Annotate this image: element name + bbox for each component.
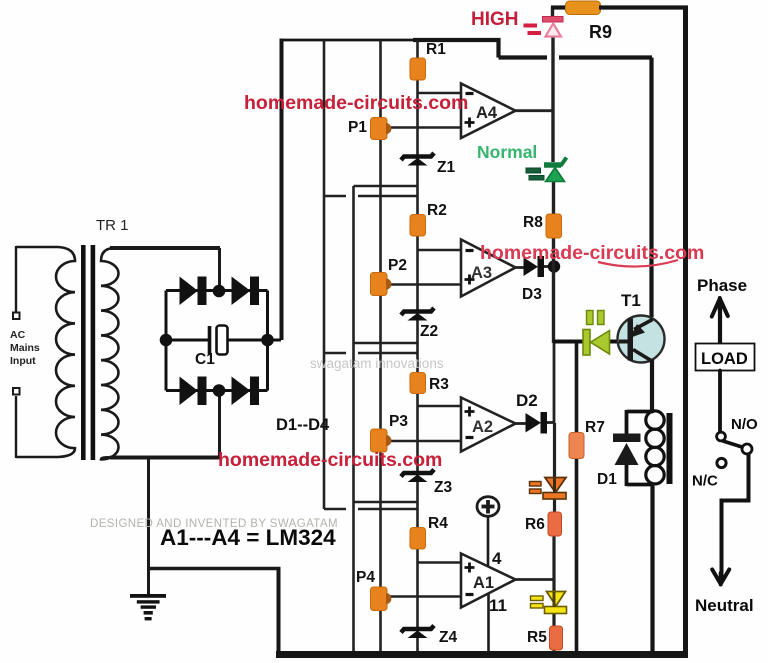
node C1 left <box>160 334 173 347</box>
svg-text:A4: A4 <box>476 104 498 122</box>
main supply bus <box>280 38 653 340</box>
wire top to R9 <box>551 5 566 9</box>
wire normal LED to R8 <box>552 181 555 215</box>
emitter stroke with arrow (PNP) <box>634 320 653 330</box>
LED HIGH (red) <box>524 17 564 37</box>
wire HIGH LED to A4 output <box>551 37 554 163</box>
svg-text:D3: D3 <box>522 286 542 303</box>
preset P3 <box>371 429 392 452</box>
diode bottom-left <box>180 378 197 405</box>
diode bottom-right <box>232 378 250 405</box>
svg-text:P2: P2 <box>388 257 407 274</box>
preset P1 <box>371 118 392 140</box>
wire R9 to right bus <box>599 5 688 9</box>
wire through orange LED <box>553 478 556 493</box>
LED Normal (green) <box>526 158 567 182</box>
wire orange LED to R6 <box>553 499 556 513</box>
svg-text:R9: R9 <box>589 22 612 42</box>
wire A3 non-inverting input from P2 <box>388 283 462 286</box>
wire preset column <box>379 40 382 653</box>
svg-text:homemade-circuits.com: homemade-circuits.com <box>218 449 442 471</box>
capacitor C1 <box>208 326 212 354</box>
svg-text:A3: A3 <box>471 264 492 282</box>
svg-text:4: 4 <box>492 549 502 568</box>
diode D1 (flyback) <box>613 434 641 466</box>
wire R5 to bottom rail <box>552 649 555 653</box>
wire through yellow LED <box>553 592 556 607</box>
svg-text:D1: D1 <box>597 471 617 488</box>
svg-text:C1: C1 <box>195 351 215 368</box>
watermark swoosh <box>598 260 678 267</box>
wire A2 output <box>516 422 527 425</box>
wire secondary top to bridge <box>218 248 221 286</box>
relay coil <box>627 410 673 486</box>
wire bridge left vertical <box>165 291 168 391</box>
contact pole <box>742 444 752 454</box>
svg-text:Z4: Z4 <box>439 629 457 646</box>
switch lever <box>723 441 742 447</box>
svg-text:R6: R6 <box>525 516 545 533</box>
resistor R2 <box>410 215 426 237</box>
svg-text:R8: R8 <box>523 214 543 231</box>
wire upper rail right (hops LED line) <box>499 55 548 59</box>
svg-text:AC: AC <box>10 329 26 341</box>
wire primary top <box>16 246 58 248</box>
resistor R9 <box>551 1 688 15</box>
LOAD box <box>696 344 755 371</box>
wire top rail <box>280 39 414 42</box>
svg-text:P1: P1 <box>348 119 367 136</box>
wire pin 4 <box>487 517 490 567</box>
wire H5 stage3 bottom <box>354 501 418 504</box>
svg-text:homemade-circuits.com: homemade-circuits.com <box>480 242 704 264</box>
diode top-right <box>232 278 250 305</box>
wire A4 non-inverting input from P1 <box>388 126 462 129</box>
wire A3 output <box>516 266 525 269</box>
terminal lower AC <box>13 388 20 395</box>
svg-text:R2: R2 <box>427 202 447 219</box>
pin4 supply symbol <box>477 497 499 652</box>
svg-text:Z1: Z1 <box>437 159 455 176</box>
svg-text:Input: Input <box>10 355 36 367</box>
wire primary bottom <box>16 456 58 458</box>
preset P4 <box>371 587 392 611</box>
svg-text:HIGH: HIGH <box>471 9 519 30</box>
wire A4 output <box>516 109 554 112</box>
LED base (yellow-green) <box>583 311 610 356</box>
wire ground column <box>352 186 355 653</box>
svg-text:A2: A2 <box>472 418 493 436</box>
svg-text:A1: A1 <box>473 574 494 592</box>
resistor R8 <box>546 214 562 238</box>
wire A2 inverting input from P3 <box>388 440 462 443</box>
core bar left <box>81 245 86 460</box>
wire R-zener column <box>416 40 419 653</box>
wire base junction down to D2 node <box>553 343 556 423</box>
LED yellow <box>531 592 567 614</box>
op-amp A4 <box>461 84 516 139</box>
resistor R4 <box>410 528 426 550</box>
op-amp A1 <box>461 554 516 608</box>
svg-text:TR 1: TR 1 <box>96 217 129 234</box>
svg-text:D1--D4: D1--D4 <box>276 416 330 434</box>
wire A1 non-inverting input <box>418 561 463 564</box>
divider bus structure <box>324 40 418 653</box>
wire top rail step down <box>496 38 500 58</box>
svg-text:Z3: Z3 <box>434 479 452 496</box>
svg-text:Mains: Mains <box>10 342 40 354</box>
wire C1 row <box>166 339 208 342</box>
wire bridge top row <box>166 289 268 292</box>
svg-text:DESIGNED AND INVENTED BY SWAGA: DESIGNED AND INVENTED BY SWAGATAM <box>90 518 338 530</box>
collector stroke <box>633 350 654 363</box>
wire bridge bottom junction to secondary bottom <box>218 392 221 458</box>
node C1 right <box>261 334 274 347</box>
wire A2 non-inverting input <box>418 405 463 408</box>
op-amp A2 <box>461 398 516 452</box>
svg-text:R4: R4 <box>428 515 448 532</box>
svg-text:R5: R5 <box>527 629 547 646</box>
wire yellow LED to R5 <box>552 613 555 628</box>
wire H4 stage3 top <box>324 352 346 355</box>
wire pin 11 <box>487 594 490 653</box>
LED orange <box>530 478 567 500</box>
contact N/C <box>717 458 726 467</box>
zener Z3 <box>401 470 434 483</box>
wire R6 to A1 output junction <box>552 536 555 593</box>
wire V1 supply feed <box>323 40 326 509</box>
label AC Mains Input <box>10 329 40 367</box>
wire D2 node to orange LED <box>553 423 556 478</box>
relay bracket bottom <box>627 483 654 487</box>
contact N/O <box>717 432 726 441</box>
resistor R7 <box>569 433 584 459</box>
svg-text:T1: T1 <box>621 291 641 310</box>
svg-text:11: 11 <box>489 596 507 615</box>
load side: phase arrow <box>696 298 755 585</box>
wire H2 stage2 top <box>324 195 346 198</box>
wire primary top lead down <box>15 246 17 312</box>
diode D3 <box>524 256 561 277</box>
svg-text:Z2: Z2 <box>420 323 438 340</box>
relay bracket left lower <box>625 464 629 486</box>
wire R7 branch <box>575 342 579 654</box>
node D3 junction <box>548 260 560 272</box>
svg-text:LOAD: LOAD <box>701 350 748 368</box>
wire primary bottom lead <box>15 396 17 458</box>
wire relay to bottom rail <box>650 484 654 655</box>
wire ground rail step down <box>277 569 281 655</box>
wire LOAD to N/O <box>718 371 722 432</box>
secondary winding <box>101 248 119 459</box>
coil loops <box>646 411 664 429</box>
wire D3 node to base junction <box>552 267 555 343</box>
wire H3 stage2 bottom <box>354 342 418 345</box>
wire A1 output <box>516 578 555 581</box>
svg-text:Phase: Phase <box>697 276 747 295</box>
wire secondary top <box>110 246 220 250</box>
wire HIGH LED stub to top <box>551 7 554 19</box>
wire +V bus up <box>280 39 284 341</box>
svg-text:homemade-circuits.com: homemade-circuits.com <box>244 92 468 114</box>
svg-text:R1: R1 <box>426 41 446 58</box>
wire ground drop <box>147 458 150 596</box>
relay bracket top <box>627 410 654 414</box>
op-amp A3 <box>461 240 516 297</box>
labels: black component designators <box>96 22 641 646</box>
resistor R5 <box>550 626 563 650</box>
transistor T1 <box>618 316 665 363</box>
svg-text:N/C: N/C <box>692 473 718 490</box>
op-amp input wires <box>388 93 462 597</box>
wire ground rail <box>149 567 281 571</box>
svg-text:R7: R7 <box>585 419 605 436</box>
wire R8 to D3 node <box>552 237 555 267</box>
transformer TR1 <box>13 245 281 595</box>
node bridge top junction <box>213 285 226 298</box>
wire right bus <box>683 6 688 655</box>
relay core bar <box>667 413 673 484</box>
node bridge bottom junction <box>213 384 226 397</box>
svg-text:N/O: N/O <box>731 416 758 433</box>
wire T1 collector to relay <box>650 361 654 413</box>
ground <box>130 594 166 620</box>
primary winding <box>56 247 75 457</box>
terminal upper AC <box>13 313 20 320</box>
relay bracket left upper <box>625 410 629 434</box>
wire pole down <box>722 454 749 581</box>
svg-text:D2: D2 <box>516 391 538 410</box>
core bar right <box>91 245 96 460</box>
svg-text:swagatam innovations: swagatam innovations <box>310 356 444 371</box>
preset P2 <box>371 273 392 296</box>
svg-text:P3: P3 <box>389 413 408 430</box>
zener Z2 <box>401 308 434 321</box>
wire bridge bottom row <box>166 389 268 392</box>
wire A4 inverting input <box>418 92 463 95</box>
diode top-left <box>180 278 197 305</box>
diode D2 <box>526 412 548 434</box>
wire bottom rail <box>276 651 688 658</box>
wire secondary bottom <box>110 456 221 460</box>
resistor R6 <box>548 512 562 536</box>
resistor R1 <box>410 58 426 80</box>
svg-text:Normal: Normal <box>477 142 537 162</box>
wire T1 base rail <box>554 340 585 344</box>
resistor R3 <box>410 373 426 394</box>
wire H1 stage1 bottom <box>354 185 418 188</box>
wire bridge right vertical <box>266 291 269 391</box>
svg-text:Neutral: Neutral <box>695 596 754 615</box>
wire A3 inverting input <box>418 249 463 252</box>
op-amp output wires <box>516 111 555 580</box>
wire T1 emitter feed <box>649 58 653 318</box>
svg-text:R3: R3 <box>429 376 449 393</box>
svg-text:P4: P4 <box>356 569 375 586</box>
bridge rectifier D1--D4 <box>160 277 281 406</box>
wire H6 stage4 top <box>324 508 346 511</box>
zener Z1 <box>401 153 434 166</box>
indicator chain vertical wire <box>553 7 555 654</box>
wire A1 inverting input from P4 <box>388 595 462 598</box>
zener Z4 <box>401 626 434 639</box>
